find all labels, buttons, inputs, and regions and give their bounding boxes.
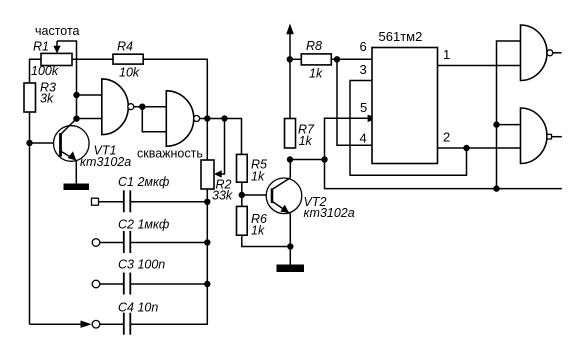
- svg-text:частота: частота: [35, 24, 80, 38]
- wire R6 bottom to emitter: [242, 235, 290, 246]
- resistor R6: [237, 206, 248, 235]
- wire R5 bottom: [241, 182, 243, 206]
- wire base VT1: [30, 142, 61, 144]
- NAND gate U3.1: [521, 25, 562, 81]
- svg-text:100k: 100k: [31, 64, 59, 78]
- node NAND2 out / R2 top: [204, 115, 210, 121]
- svg-text:скважность: скважность: [137, 147, 203, 161]
- wire R4 right down to NAND2 output: [143, 59, 207, 160]
- wire pin3 feedback to pin2 net: [350, 81, 467, 176]
- node pin2 feedback: [463, 145, 469, 151]
- wire R3 bottom down left rail: [29, 112, 31, 324]
- wire pin2 to NAND4 input B: [438, 147, 521, 149]
- svg-text:5: 5: [360, 100, 367, 115]
- NAND gate U1.1: [102, 79, 134, 135]
- node NAND1 output: [139, 104, 145, 110]
- resistor R3: [24, 83, 36, 112]
- node NAND1 input A: [73, 92, 79, 98]
- ground VT2: [277, 265, 305, 273]
- wire clock rail to NAND3 input A: [497, 41, 521, 189]
- wire NAND1 input A: [77, 94, 102, 96]
- potentiometer R2: [201, 119, 225, 190]
- node clock rail: [493, 185, 499, 191]
- node C3 bus: [204, 281, 210, 287]
- svg-text:2: 2: [443, 130, 450, 145]
- svg-text:10k: 10k: [119, 66, 140, 80]
- capacitor C4: [92, 313, 130, 335]
- wire R1 left to R3: [30, 59, 42, 83]
- svg-text:6: 6: [360, 39, 367, 54]
- wire NAND2 output to R5: [199, 119, 241, 156]
- svg-text:1k: 1k: [309, 67, 323, 81]
- wire pin1 to NAND3 input B: [438, 65, 521, 67]
- transistor VT1: [54, 119, 90, 184]
- transistor VT2: [266, 178, 302, 265]
- resistor R8: [301, 54, 331, 65]
- node C1 bus: [204, 199, 210, 205]
- node R8 right: [334, 56, 340, 62]
- wire bottom rail to C4 with arrow: [30, 321, 92, 328]
- wire R8 right to pin6: [331, 58, 372, 60]
- node C2 bus: [204, 239, 210, 245]
- svg-text:4: 4: [360, 131, 367, 146]
- svg-text:C1 2мкф: C1 2мкф: [118, 175, 170, 189]
- svg-text:C2 1мкф: C2 1мкф: [118, 218, 170, 232]
- wire VT2 collector: [289, 160, 291, 178]
- power +V arrow: [286, 24, 294, 60]
- svg-text:C3 100n: C3 100n: [118, 258, 165, 272]
- node R2 wiper tap: [221, 115, 227, 121]
- resistor R7: [285, 119, 296, 149]
- wire R2 bottom to cap bus: [206, 189, 208, 202]
- svg-text:3: 3: [360, 62, 367, 77]
- wire NAND1 input B: [77, 118, 102, 120]
- wire R8 node to pin4: [337, 59, 372, 145]
- svg-text:кт3102а: кт3102а: [80, 155, 131, 169]
- NAND gate U1.2: [166, 91, 199, 146]
- svg-text:R4: R4: [117, 40, 133, 54]
- wire NAND4 input A: [497, 124, 521, 126]
- node branch: [321, 156, 327, 162]
- svg-text:C4 10n: C4 10n: [118, 301, 158, 315]
- node NAND4 input A tap: [493, 121, 499, 127]
- node base VT1 junction: [26, 140, 32, 146]
- wire collector node to branch node: [290, 159, 325, 161]
- svg-text:561тм2: 561тм2: [379, 29, 423, 44]
- resistor R4: [113, 54, 143, 64]
- node VT2 emitter / R6: [287, 243, 293, 249]
- capacitor C3: [92, 273, 207, 295]
- NAND gate U3.2: [521, 108, 562, 164]
- wire branch to pin5 with arrow: [325, 115, 378, 160]
- wire R1 right to R4: [72, 58, 113, 60]
- wire R1 wiper to NAND1 inputs: [57, 41, 77, 119]
- svg-text:1k: 1k: [299, 134, 313, 148]
- wire capacitor bus vertical: [131, 202, 207, 324]
- svg-text:33k: 33k: [212, 189, 233, 203]
- svg-text:1k: 1k: [251, 169, 265, 183]
- svg-text:кт3102а: кт3102а: [304, 206, 355, 220]
- node VT2 base: [239, 192, 245, 198]
- wire NAND2 input B jog: [142, 107, 166, 132]
- node NAND1 input B / VT1 collector: [73, 115, 79, 121]
- ground VT1: [64, 184, 90, 191]
- capacitor C1: [92, 190, 208, 212]
- svg-text:1: 1: [443, 47, 450, 62]
- svg-text:R8: R8: [306, 39, 322, 53]
- wire VT2 base: [242, 194, 272, 196]
- potentiometer R1: [41, 41, 72, 66]
- wire branch to bottom output rail: [325, 160, 562, 189]
- svg-text:3k: 3k: [40, 92, 54, 106]
- svg-text:1k: 1k: [251, 224, 265, 238]
- capacitor C2: [92, 231, 207, 253]
- wire R7 top to +V: [289, 59, 291, 118]
- IC U2 561тм2: [372, 48, 438, 164]
- wire NAND1 out to NAND2: [134, 106, 167, 108]
- wire R8 left: [290, 58, 302, 60]
- node +V / R8 left: [287, 56, 293, 62]
- node R7 bottom: [287, 156, 293, 162]
- svg-text:R1: R1: [33, 40, 49, 54]
- resistor R5: [237, 154, 248, 182]
